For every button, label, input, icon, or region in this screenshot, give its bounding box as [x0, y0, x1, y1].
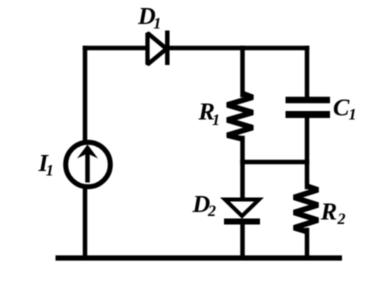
wire R1 branch bottom (R1 to node C and D2 anode) [240, 138, 245, 198]
wire C1 branch top (top wire to C1) [305, 48, 310, 97]
wire middle horizontal (node C to node D) [243, 160, 308, 165]
capacitor C1 bottom plate [286, 111, 331, 118]
svg-text:2: 2 [207, 203, 216, 220]
wire top-right horizontal (D1 cathode to node B) [168, 46, 307, 51]
diode D1 triangle [148, 33, 167, 65]
current source I1 arrow shaft [85, 153, 90, 183]
current source I1 circle [66, 142, 111, 187]
wire top-left horizontal (node A to D1 anode) [85, 46, 146, 51]
svg-text:1: 1 [153, 15, 161, 32]
diode D1 cathode bar [165, 31, 170, 66]
svg-text:1: 1 [46, 162, 54, 179]
wire D2 cathode to ground [240, 222, 245, 256]
svg-text:R: R [320, 199, 337, 226]
wire left vertical lower (I1 bottom to ground) [83, 188, 88, 256]
ground bus bar [56, 255, 343, 260]
wire C1 bottom to node D and R2 top [305, 118, 310, 187]
svg-text:1: 1 [349, 107, 357, 124]
wire left vertical upper (node A to I1 top) [83, 48, 88, 141]
wire R1 branch top (top wire to R1) [240, 48, 245, 95]
wire R2 bottom to ground [305, 230, 310, 256]
resistor R1 [227, 94, 253, 140]
diode D2 triangle [225, 200, 259, 217]
svg-text:C: C [333, 95, 350, 122]
current source I1 arrow head [77, 145, 98, 159]
svg-text:2: 2 [337, 211, 346, 228]
diode D2 cathode bar [224, 219, 260, 225]
svg-text:1: 1 [212, 112, 220, 129]
capacitor C1 top plate [286, 97, 331, 104]
resistor R2 [294, 186, 318, 232]
